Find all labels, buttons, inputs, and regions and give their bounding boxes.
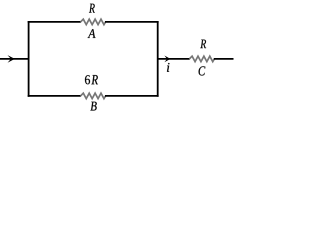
label i (current) [167, 63, 169, 72]
output current arrowhead [164, 56, 170, 63]
label R (value of resistor A) [89, 4, 95, 13]
wire: top branch right [105, 21, 159, 23]
resistor B zigzag [81, 93, 106, 98]
label B (resistor B name) [90, 102, 96, 111]
label A (resistor A name) [88, 29, 96, 38]
wire: output lead right [214, 58, 234, 60]
label R (value of resistor C) [200, 40, 206, 49]
wire: left vertical bus [28, 22, 30, 96]
resistor A zigzag [81, 19, 106, 24]
wire: output lead left [158, 58, 190, 60]
wire: right vertical bus [157, 22, 159, 96]
wire: bottom branch left [28, 95, 81, 97]
input arrowhead [8, 55, 15, 63]
label C (resistor C name) [199, 66, 206, 75]
label R (value of resistor B) [91, 75, 97, 84]
label 6 (coefficient of resistor B value) [85, 75, 90, 84]
wire: top branch left [28, 21, 81, 23]
resistor C zigzag [189, 56, 214, 61]
wire: input lead [0, 58, 29, 60]
wire: bottom branch right [105, 95, 159, 97]
